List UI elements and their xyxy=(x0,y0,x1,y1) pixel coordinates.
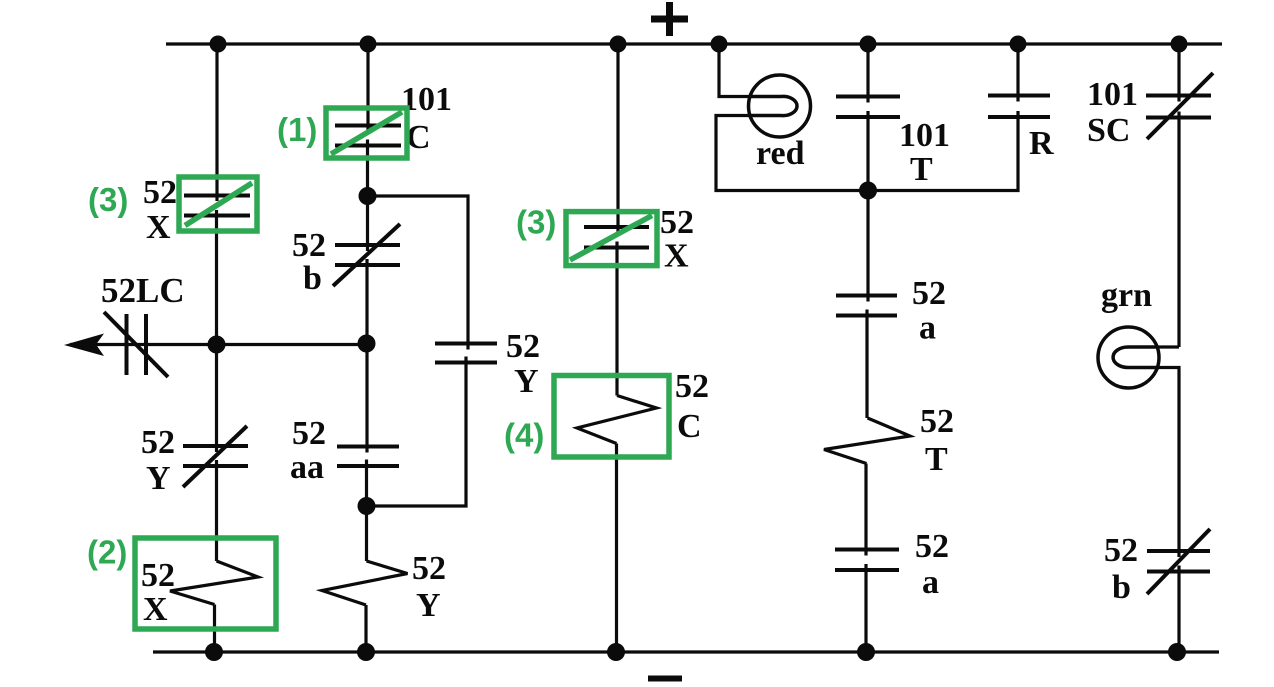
wire branch5 to node xyxy=(866,111,869,191)
svg-text:52: 52 xyxy=(412,550,446,587)
label X (res) xyxy=(143,591,168,628)
svg-text:52: 52 xyxy=(292,227,326,264)
lamp red circle xyxy=(749,75,811,137)
svg-text:Y: Y xyxy=(416,587,441,624)
label Y (left) xyxy=(146,460,171,497)
+ label xyxy=(651,2,688,36)
svg-text:red: red xyxy=(756,135,805,172)
label 101 (C) xyxy=(401,81,452,118)
resistor 52T xyxy=(824,418,910,464)
annotation label (1) xyxy=(277,111,317,148)
wire branch1 top xyxy=(215,44,218,201)
svg-text:X: X xyxy=(146,209,171,246)
wire lamp red drop xyxy=(719,44,750,97)
label 52 (b right) xyxy=(1104,532,1138,569)
svg-text:52: 52 xyxy=(141,557,175,594)
contact 52X left (plates) xyxy=(184,196,250,216)
svg-text:52LC: 52LC xyxy=(101,271,185,310)
wire branch2 mid xyxy=(365,259,368,453)
wire lamp red return xyxy=(716,116,868,191)
label 52 (res C) xyxy=(675,368,709,405)
label grn xyxy=(1101,277,1152,314)
label Y (res) xyxy=(416,587,441,624)
svg-text:Y: Y xyxy=(146,460,171,497)
svg-text:52: 52 xyxy=(506,328,540,365)
label aa xyxy=(290,449,324,486)
label R xyxy=(1029,125,1054,162)
svg-text:(3): (3) xyxy=(88,181,128,218)
svg-text:R: R xyxy=(1029,125,1054,162)
svg-text:T: T xyxy=(910,151,933,188)
node top bus 101T xyxy=(860,36,877,53)
node top bus B3 xyxy=(610,36,627,53)
contact 52Y left (plates) xyxy=(183,446,248,466)
node bottom bus B5 xyxy=(857,643,875,661)
label 101 (T) xyxy=(899,117,950,154)
annotation box (2) xyxy=(135,538,276,629)
label b (right) xyxy=(1112,569,1131,606)
svg-text:X: X xyxy=(664,238,689,275)
node top bus B1 xyxy=(210,36,227,53)
svg-text:(4): (4) xyxy=(504,417,544,454)
label X (left) xyxy=(146,209,171,246)
arrowhead 52LC xyxy=(64,334,104,357)
node 52LC-branch2 xyxy=(358,335,376,353)
resistor 52Y xyxy=(322,561,408,605)
contact 52a upper plates xyxy=(836,296,897,316)
contact 52LC slash xyxy=(104,312,168,377)
node top bus B2 xyxy=(360,36,377,53)
wire branch2 bottom xyxy=(364,605,367,652)
label T xyxy=(910,151,933,188)
contact 52b mid slash xyxy=(333,224,400,286)
svg-text:52: 52 xyxy=(912,275,946,312)
label b (mid) xyxy=(303,260,322,297)
label 52LC xyxy=(101,271,185,310)
svg-text:52: 52 xyxy=(675,368,709,405)
svg-text:Y: Y xyxy=(514,363,539,400)
node below 52aa xyxy=(358,497,376,515)
node below 101C xyxy=(359,187,377,205)
svg-text:grn: grn xyxy=(1101,277,1152,314)
label 52 (aa) xyxy=(292,415,326,452)
svg-text:T: T xyxy=(925,441,948,478)
wire branch5 top xyxy=(866,44,869,103)
label 52 (res X) xyxy=(141,557,175,594)
wire loop right bottom xyxy=(367,357,467,507)
contact 52b right slash xyxy=(1147,529,1210,594)
svg-text:52: 52 xyxy=(143,174,177,211)
node 52LC junction xyxy=(208,336,226,354)
wire grn top lead xyxy=(1157,345,1179,348)
capacitor 52Y plates xyxy=(435,344,497,363)
wire branch7 mid xyxy=(1177,112,1180,348)
svg-text:a: a xyxy=(922,564,939,601)
label a (upper) xyxy=(919,310,936,347)
label T (res) xyxy=(925,441,948,478)
− label xyxy=(648,676,682,682)
label red xyxy=(756,135,805,172)
lamp grn filament loop xyxy=(1113,347,1159,368)
wire branch2 to node xyxy=(366,140,369,197)
svg-text:(3): (3) xyxy=(516,204,556,241)
wire branch5 low2 xyxy=(864,464,867,556)
contact 101C plates xyxy=(335,126,401,146)
annotation box (4) xyxy=(554,376,669,458)
wire branch7 bottom xyxy=(1177,566,1180,653)
annotation slash (3) left xyxy=(185,183,252,226)
svg-text:52: 52 xyxy=(915,528,949,565)
annotation label (3) left xyxy=(88,181,128,218)
node bottom bus B1 xyxy=(205,643,223,661)
contact 52Y left slash xyxy=(183,426,247,487)
annotation label (4) xyxy=(504,417,544,454)
wire branch2 top xyxy=(366,44,369,132)
label 52 (Y left) xyxy=(141,424,175,461)
svg-text:SC: SC xyxy=(1087,112,1130,149)
annotation label (2) xyxy=(87,534,127,571)
label X (mid) xyxy=(664,238,689,275)
contact 52b mid plates xyxy=(335,245,400,265)
label C xyxy=(406,119,431,156)
positive bus xyxy=(166,42,1222,45)
wire branch3 bottom xyxy=(615,444,618,653)
wire branch2 low xyxy=(365,460,368,562)
label 52 (res T) xyxy=(920,403,954,440)
contact 52b right plates xyxy=(1147,551,1210,572)
lamp grn circle xyxy=(1098,327,1159,388)
contact 52a lower plates xyxy=(835,550,899,571)
wire branch5 low1 xyxy=(865,310,868,419)
wire branch3 top xyxy=(616,44,619,233)
contact 101T plates xyxy=(836,97,900,118)
label 52 (X mid) xyxy=(660,204,694,241)
wire branch3 mid xyxy=(615,242,618,396)
wire branch2 node to 52b xyxy=(366,196,369,251)
node bottom bus B7 xyxy=(1168,643,1186,661)
svg-text:52: 52 xyxy=(141,424,175,461)
label 52 (res Y) xyxy=(412,550,446,587)
node bottom bus B3 xyxy=(607,643,625,661)
label 52 (a upper) xyxy=(912,275,946,312)
svg-text:(2): (2) xyxy=(87,534,127,571)
label a (lower) xyxy=(922,564,939,601)
contact 52aa plates xyxy=(337,447,399,467)
svg-text:52: 52 xyxy=(660,204,694,241)
wire grn bottom lead xyxy=(1158,368,1179,558)
wire 52LC horizontal xyxy=(70,343,367,346)
node top bus R xyxy=(1010,36,1027,53)
wire branch1 bottom xyxy=(213,605,216,653)
wire branch1 junction to 52Y xyxy=(215,345,218,453)
wire branch5 mid xyxy=(866,191,869,302)
negative bus xyxy=(153,650,1219,653)
svg-text:52: 52 xyxy=(920,403,954,440)
resistor 52C xyxy=(577,396,657,444)
svg-text:52: 52 xyxy=(292,415,326,452)
annotation box (1) xyxy=(326,108,407,158)
lamp red filament loop xyxy=(748,96,797,115)
wire branch5 bottom xyxy=(864,564,867,652)
svg-text:X: X xyxy=(143,591,168,628)
label SC xyxy=(1087,112,1130,149)
wire branch R top xyxy=(1016,44,1019,102)
annotation box (3) mid xyxy=(566,212,657,266)
label C (res) xyxy=(677,408,702,445)
wire branch1 low xyxy=(215,460,218,561)
label 52 (b mid) xyxy=(292,227,326,264)
node bottom bus B2 xyxy=(357,643,375,661)
contact 52X mid plates xyxy=(584,227,649,248)
wire branch R down xyxy=(868,111,1018,191)
label 52 (a lower) xyxy=(915,528,949,565)
svg-text:101: 101 xyxy=(1087,76,1138,113)
resistor 52X xyxy=(170,561,258,605)
contact 101SC slash xyxy=(1147,73,1213,139)
svg-text:b: b xyxy=(303,260,322,297)
node lamp/R junction xyxy=(859,182,877,200)
wire branch7 top xyxy=(1177,44,1180,102)
wire loop right top xyxy=(368,196,469,350)
node top bus lamp xyxy=(711,36,728,53)
annotation slash (1) xyxy=(331,112,402,154)
svg-text:52: 52 xyxy=(1104,532,1138,569)
svg-text:b: b xyxy=(1112,569,1131,606)
svg-text:101: 101 xyxy=(899,117,950,154)
label 52 (X left) xyxy=(143,174,177,211)
annotation label (3) mid xyxy=(516,204,556,241)
wire branch1 mid xyxy=(215,210,218,345)
contact 52LC plates xyxy=(127,314,147,375)
node top bus SC xyxy=(1171,36,1188,53)
contact R plates xyxy=(988,96,1050,118)
annotation box (3) left xyxy=(179,177,257,231)
svg-text:(1): (1) xyxy=(277,111,317,148)
label 101 (SC) xyxy=(1087,76,1138,113)
contact 101SC plates xyxy=(1146,96,1211,118)
annotation slash (3) mid xyxy=(570,216,652,261)
svg-text:a: a xyxy=(919,310,936,347)
label Y (cap) xyxy=(514,363,539,400)
svg-text:aa: aa xyxy=(290,449,324,486)
label 52 (cap Y) xyxy=(506,328,540,365)
svg-text:C: C xyxy=(677,408,702,445)
